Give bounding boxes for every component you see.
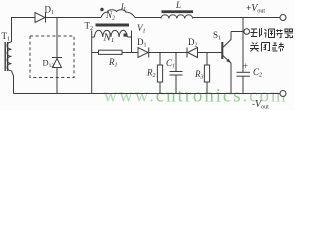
wire top rail right segment (193, 17, 280, 19)
svg-text:IL: IL (120, 2, 127, 13)
svg-text:N1: N1 (103, 32, 115, 45)
svg-text:+: + (243, 61, 248, 71)
wire collector to shutdown terminal (231, 31, 244, 33)
svg-text:R1: R1 (108, 57, 118, 69)
wire R1 row (92, 52, 139, 54)
capacitor C1 leads (175, 53, 177, 94)
wire zener branch vertical (56, 18, 58, 94)
svg-text:S1: S1 (213, 30, 221, 42)
svg-text:D1: D1 (45, 5, 55, 17)
capacitor C1 plates (170, 72, 183, 76)
phase dot on top winding (100, 8, 103, 11)
char bi (262, 43, 270, 52)
dashed protection box (30, 36, 74, 78)
svg-text:R3: R3 (194, 69, 204, 81)
wire bottom rail (14, 93, 281, 95)
transformer T2 core bar (96, 24, 130, 27)
svg-text:R2: R2 (146, 68, 156, 80)
transformer T2 top winding hump (101, 10, 135, 18)
svg-text:D12: D12 (43, 58, 55, 70)
terminal circle +Vout (280, 15, 286, 21)
transistor S1 emitter (223, 56, 231, 94)
svg-text:V1: V1 (137, 23, 146, 35)
wire middle rail (149, 52, 222, 54)
transistor S1 base bar (221, 42, 223, 59)
char tiao (264, 29, 275, 38)
diode D2 pointing left (187, 48, 198, 58)
terminal circle shutdown (244, 29, 250, 35)
terminal circle -Vout (280, 91, 286, 97)
wire N1 right lead down (127, 31, 131, 53)
wire left vertical from T1 top (11, 18, 13, 43)
char duan (273, 43, 284, 52)
svg-text:C1: C1 (166, 58, 175, 70)
diode D3 (138, 48, 149, 58)
char qi (285, 29, 294, 38)
inductor L winding (161, 15, 193, 19)
svg-text:N2: N2 (105, 10, 115, 22)
char guan (250, 43, 259, 52)
svg-text:T2: T2 (85, 21, 94, 33)
transformer T1 winding (7, 42, 12, 71)
resistor R1 (99, 50, 123, 54)
svg-text:D2: D2 (188, 37, 198, 49)
svg-text:L: L (175, 0, 181, 10)
diode D1 top-left (35, 13, 46, 23)
capacitor C2 plates (237, 72, 251, 76)
wire N1 left lead down (92, 31, 95, 94)
resistor R3 (204, 65, 209, 82)
zener diode D12 (52, 58, 62, 68)
phase dot square on N1 (124, 34, 127, 37)
transformer T2 winding N1 (95, 30, 128, 37)
svg-text:T1: T1 (2, 31, 11, 43)
char dao (251, 28, 262, 37)
svg-text:D1: D1 (137, 37, 147, 49)
svg-text:+Vout: +Vout (246, 3, 265, 15)
wire top rail middle segment (135, 17, 161, 19)
transistor S1 emitter arrow (226, 59, 231, 63)
wire output cap vertical (242, 18, 244, 94)
char jie (276, 30, 283, 38)
transformer T1 core bars (5, 42, 7, 71)
transistor S1 collector (223, 32, 231, 48)
resistor R2 leads (159, 53, 161, 94)
svg-text:C2: C2 (253, 67, 262, 79)
wire T1 bottom lead (12, 71, 14, 94)
chinese text to regulator shutdown terminal (250, 28, 293, 52)
inductor L core bar (162, 10, 194, 13)
wire top rail left segment (11, 17, 101, 19)
resistor R2 (157, 65, 162, 82)
resistor R3 leads (206, 53, 208, 94)
